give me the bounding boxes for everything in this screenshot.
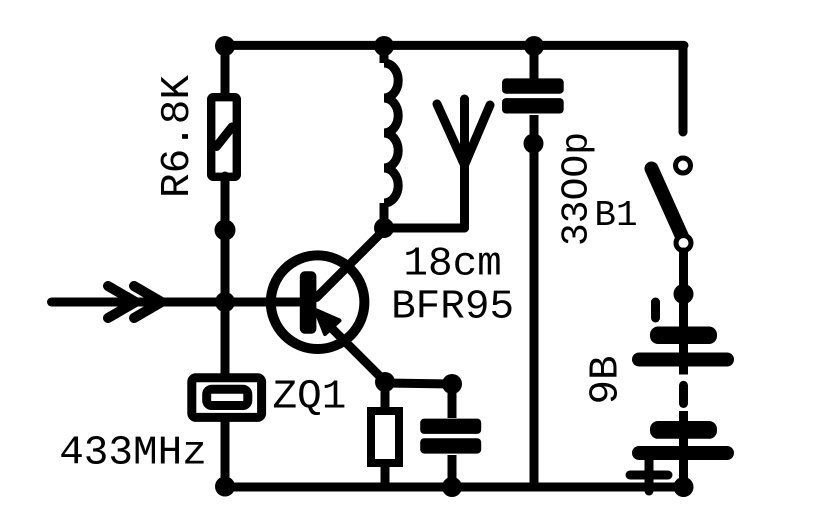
resistor emitter [371,411,399,463]
battery minus mark [651,302,660,318]
wire antenna to collector node [384,224,465,233]
transistor Q1 circle [271,255,365,349]
label BFR95 [391,285,514,331]
label ZQ1 [272,375,346,421]
label 9B [584,355,630,404]
capacitor 3300p [502,45,564,487]
wire top rail [225,41,684,50]
resistor R6.8K [211,97,237,177]
battery 9B cell 1 [632,327,734,367]
svg-text:B1: B1 [594,195,637,236]
node top capacitor junction [524,36,544,56]
crystal ZQ1 [192,378,262,418]
svg-text:R6.8K: R6.8K [155,75,201,198]
node emitter junction [375,372,395,392]
node bypass cap top [442,374,462,394]
svg-text:18cm: 18cm [403,242,501,288]
wire bottom rail [225,483,684,492]
wire emitter resistor bottom lead [381,463,390,487]
node switch-battery junction [674,284,694,304]
node left rail junction upper [215,220,236,241]
wire left rail lower segment [221,416,230,487]
node bottom-left corner [215,477,235,497]
node top-left junction [215,36,235,56]
antenna [437,99,490,228]
svg-text:433MHz: 433MHz [59,431,207,477]
wire emitter to bypass cap [385,383,452,384]
input arrow chevron 2 [134,286,162,318]
input arrow chevron 1 [108,286,136,318]
svg-text:33OOp: 33OOp [556,132,599,246]
wire left rail upper segment [221,45,230,98]
label 18cm [403,242,501,288]
wire battery dashed link [679,366,688,421]
svg-text:ZQ1: ZQ1 [272,375,346,421]
switch B1 lever [652,169,685,242]
label 433MHz [59,431,207,477]
battery plus mark [630,460,668,491]
wire emitter resistor top lead [381,382,390,411]
node bypass cap bottom [442,477,462,497]
node collector junction [374,218,394,238]
label 3300p [556,132,599,246]
wire input line with base [52,298,303,307]
label B1 [594,195,637,236]
node left rail base junction [215,292,235,312]
node below capacitor [524,134,544,154]
svg-text:BFR95: BFR95 [391,285,514,331]
capacitor emitter bypass [420,384,481,487]
inductor L1 [384,45,398,227]
switch B1 top contact [676,158,691,173]
svg-text:9B: 9B [584,355,630,404]
label R6.8K [155,75,201,198]
wire left rail middle segment [221,176,230,380]
battery 9B cell 2 [632,421,734,487]
wire emitter lead [316,310,386,382]
switch B1 bottom contact [676,236,691,251]
transistor Q1 base bar [300,271,317,333]
wire switch feed [679,45,688,132]
wire switch to battery [679,252,688,327]
node top inductor junction [374,36,394,56]
node battery bottom junction [674,477,694,497]
wire collector lead [317,230,385,298]
